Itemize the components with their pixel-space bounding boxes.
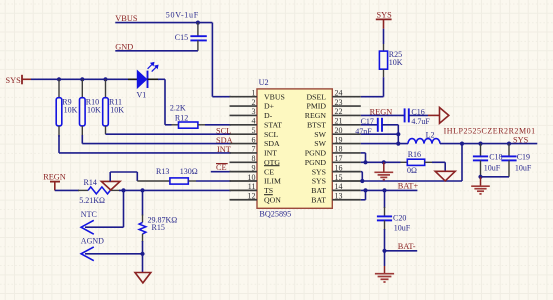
resistor R15 bbox=[139, 190, 177, 253]
svg-text:19: 19 bbox=[335, 135, 343, 144]
svg-text:21: 21 bbox=[335, 117, 343, 126]
wire R13 to pin 10 (ILIM) bbox=[196, 180, 231, 182]
power ground arrow (R16) bbox=[435, 171, 455, 181]
wire CE to pin 9 bbox=[211, 171, 231, 173]
wire ground-arrow to R13 bbox=[110, 172, 137, 181]
pin 18 (PGND) bbox=[305, 145, 361, 158]
wire C20 to ground bbox=[384, 251, 386, 266]
svg-text:CE: CE bbox=[264, 167, 274, 176]
wire NTC to TS bbox=[85, 190, 124, 227]
svg-text:DSEL: DSEL bbox=[307, 92, 327, 101]
node SYS-R11 bbox=[103, 77, 107, 81]
net label SYS (right) bbox=[513, 135, 529, 144]
wire pin 21 to C17 bbox=[361, 124, 378, 126]
svg-text:2: 2 bbox=[252, 98, 256, 107]
svg-text:STAT: STAT bbox=[264, 120, 282, 129]
svg-text:1: 1 bbox=[252, 89, 256, 98]
svg-text:PGND: PGND bbox=[305, 158, 327, 167]
offsheet connector AGND bbox=[81, 236, 104, 260]
svg-text:R15: R15 bbox=[152, 223, 165, 232]
svg-text:5.21KΩ: 5.21KΩ bbox=[79, 196, 105, 205]
ground (PGND) bbox=[374, 162, 393, 179]
pin 10 (ILIM) bbox=[230, 173, 281, 186]
capacitor C18 bbox=[473, 144, 503, 177]
node SYS-R9 bbox=[57, 77, 61, 81]
wire R10 to SDA net bbox=[82, 135, 231, 144]
power ground arrow (bottom left) bbox=[135, 273, 151, 283]
svg-text:10K: 10K bbox=[389, 58, 403, 67]
pin 19 (SW) bbox=[314, 135, 361, 148]
wire BAT- stub bbox=[385, 250, 418, 252]
svg-text:R13: R13 bbox=[156, 167, 169, 176]
svg-text:11: 11 bbox=[248, 182, 256, 191]
svg-text:10uF: 10uF bbox=[515, 163, 532, 172]
svg-text:5: 5 bbox=[252, 126, 256, 135]
pin 16 (SYS) bbox=[312, 163, 361, 176]
pin 9 (CE) bbox=[230, 163, 275, 176]
svg-text:0Ω: 0Ω bbox=[407, 166, 417, 175]
svg-text:10K: 10K bbox=[87, 106, 101, 115]
svg-text:4: 4 bbox=[252, 117, 256, 126]
svg-text:CE: CE bbox=[216, 163, 227, 172]
wire SYS rail (right) bbox=[440, 143, 537, 145]
svg-text:AGND: AGND bbox=[81, 236, 104, 245]
svg-text:BQ25895: BQ25895 bbox=[259, 209, 291, 218]
svg-text:V1: V1 bbox=[137, 90, 147, 99]
wire R12 to pin 4 (STAT) bbox=[205, 124, 231, 126]
power ground arrow (TS filter) bbox=[101, 181, 120, 190]
pin 4 (STAT) bbox=[230, 117, 283, 130]
pin 6 (SDA) bbox=[230, 135, 280, 148]
svg-text:10: 10 bbox=[248, 173, 256, 182]
wire TS rail bbox=[110, 189, 231, 191]
resistor R11 bbox=[103, 79, 125, 134]
svg-text:10K: 10K bbox=[110, 106, 124, 115]
resistor R10 bbox=[80, 79, 102, 137]
svg-text:14: 14 bbox=[335, 182, 343, 191]
node PGND ground junction bbox=[382, 160, 386, 164]
pin 7 (INT) bbox=[230, 145, 278, 158]
port REGN (left) bbox=[43, 173, 66, 191]
part number IHLP2525CZER2R2M01 bbox=[444, 127, 536, 136]
node BTST-SW tie lower bbox=[396, 142, 400, 146]
svg-text:NTC: NTC bbox=[81, 210, 97, 219]
svg-text:22: 22 bbox=[335, 107, 343, 116]
svg-text:QON: QON bbox=[264, 195, 281, 204]
net label BAT+ bbox=[398, 182, 419, 191]
LED V1 bbox=[128, 62, 158, 99]
svg-text:PGND: PGND bbox=[305, 149, 327, 158]
pin 15 (SYS) bbox=[312, 173, 361, 186]
svg-text:TS: TS bbox=[264, 186, 273, 195]
pin 23 (PMID) bbox=[307, 98, 361, 111]
pin 20 (SW) bbox=[314, 126, 361, 139]
svg-text:SYS: SYS bbox=[513, 135, 529, 144]
wire BAT+ rail bbox=[361, 189, 418, 191]
svg-text:SCL: SCL bbox=[264, 130, 279, 139]
port SYS (left) bbox=[6, 75, 32, 85]
svg-text:23: 23 bbox=[335, 98, 343, 107]
svg-text:4.7uF: 4.7uF bbox=[411, 117, 430, 126]
wire C16 to power arrow bbox=[409, 114, 428, 116]
svg-text:R12: R12 bbox=[175, 114, 188, 123]
node BTST-SW tie upper bbox=[396, 132, 400, 136]
svg-text:3: 3 bbox=[252, 107, 256, 116]
svg-text:20: 20 bbox=[335, 126, 343, 135]
pin 1 (VBUS) bbox=[230, 89, 285, 102]
svg-text:BAT+: BAT+ bbox=[398, 182, 419, 191]
wire GND to C15 bbox=[115, 50, 198, 52]
wire pin 19 (SW) to L2 bbox=[361, 143, 408, 145]
node SYS pins tie bbox=[360, 179, 364, 183]
wire C18-C19 ground tie bbox=[481, 176, 510, 178]
capacitor C17 bbox=[355, 117, 382, 136]
svg-text:PMID: PMID bbox=[307, 102, 327, 111]
net label SCL bbox=[216, 127, 231, 136]
svg-text:SW: SW bbox=[314, 139, 326, 148]
node AGND-R15 junction bbox=[140, 252, 144, 256]
svg-text:INT: INT bbox=[217, 145, 231, 154]
node SYS-C19 junction bbox=[507, 142, 511, 146]
node SYS-down junction bbox=[460, 142, 464, 146]
resistor R16 bbox=[401, 150, 433, 175]
svg-text:INT: INT bbox=[264, 149, 277, 158]
net label SDA bbox=[216, 136, 233, 145]
pin 11 (TS) bbox=[230, 182, 274, 195]
svg-text:BAT-: BAT- bbox=[398, 242, 416, 251]
svg-text:U2: U2 bbox=[259, 78, 269, 87]
capacitor C15 bbox=[175, 23, 207, 51]
wire pin 20 to SW tie bbox=[361, 133, 399, 135]
svg-text:ILIM: ILIM bbox=[264, 177, 281, 186]
pin 12 (QON) bbox=[230, 192, 282, 205]
node BAT- junction bbox=[382, 249, 386, 253]
svg-text:SYS: SYS bbox=[312, 167, 326, 176]
svg-text:SCL: SCL bbox=[216, 127, 231, 136]
wire SYS to R25 bbox=[383, 29, 385, 44]
wire pin 22 to C16 bbox=[361, 114, 405, 116]
pin name underlines (OTG, TS) bbox=[264, 166, 280, 195]
wire AGND to R15 bbox=[85, 253, 143, 255]
pin 13 (BAT) bbox=[311, 192, 361, 205]
svg-text:GND: GND bbox=[115, 42, 133, 51]
IC U2 BQ25895 body bbox=[257, 78, 332, 218]
svg-text:50V-1uF: 50V-1uF bbox=[166, 11, 199, 20]
svg-text:R14: R14 bbox=[84, 178, 97, 187]
node PGND tie bbox=[363, 160, 367, 164]
resistor R9 bbox=[56, 79, 77, 137]
svg-text:BTST: BTST bbox=[307, 120, 326, 129]
svg-text:SW: SW bbox=[314, 130, 326, 139]
inductor L2 bbox=[408, 130, 440, 143]
wire R15 to ground bbox=[142, 254, 144, 273]
wire REGN to R14 bbox=[55, 189, 88, 191]
svg-text:VBUS: VBUS bbox=[264, 92, 285, 101]
wire pin 16 to pin 15 tie bbox=[361, 172, 363, 181]
pin 8 (OTG) bbox=[230, 154, 281, 167]
svg-text:SYS: SYS bbox=[312, 177, 326, 186]
svg-text:REGN: REGN bbox=[43, 173, 66, 182]
svg-text:15: 15 bbox=[335, 173, 343, 182]
port VBUS bbox=[115, 14, 138, 23]
resistor R25 bbox=[379, 44, 402, 77]
svg-text:BAT: BAT bbox=[311, 195, 326, 204]
svg-text:10uF: 10uF bbox=[394, 224, 411, 233]
node SYS-C18 junction bbox=[478, 142, 482, 146]
svg-text:12: 12 bbox=[248, 192, 256, 201]
node BAT pins tie bbox=[363, 188, 367, 192]
wire R9 to INT net bbox=[59, 135, 231, 153]
resistor R13 bbox=[137, 167, 198, 184]
wire pin 17 (PGND) to R16 bbox=[361, 161, 401, 163]
capacitor C19 bbox=[501, 144, 532, 177]
power port arrow (REGN cap) bbox=[428, 108, 449, 124]
svg-text:10uF: 10uF bbox=[484, 163, 501, 172]
svg-text:C18: C18 bbox=[489, 152, 502, 161]
svg-text:SYS: SYS bbox=[377, 11, 393, 20]
value label 50V-1uF bbox=[166, 11, 199, 20]
svg-text:8: 8 bbox=[252, 154, 256, 163]
wire VBUS to C15 and pin 1 bbox=[115, 23, 231, 97]
svg-text:16: 16 bbox=[335, 163, 343, 172]
svg-text:SYS: SYS bbox=[6, 76, 22, 85]
resistor R12 bbox=[170, 104, 205, 129]
node TS-R15 junction bbox=[140, 188, 144, 192]
wire SYS rail to IC SYS pins bbox=[362, 144, 462, 181]
capacitor C20 bbox=[377, 190, 411, 250]
offsheet connector NTC bbox=[81, 210, 97, 234]
wire V1 cathode to R12 bbox=[148, 79, 172, 125]
wire R16 to ground arrow bbox=[432, 162, 445, 171]
svg-text:9: 9 bbox=[252, 163, 256, 172]
svg-text:10K: 10K bbox=[64, 106, 78, 115]
pin 21 (BTST) bbox=[307, 117, 361, 130]
svg-text:D+: D+ bbox=[264, 102, 275, 111]
svg-text:130Ω: 130Ω bbox=[180, 167, 198, 176]
svg-text:24: 24 bbox=[335, 89, 343, 98]
wire R25 to pin 24 (DSEL) bbox=[361, 77, 384, 97]
svg-text:6: 6 bbox=[252, 135, 256, 144]
node TS-NTC junction bbox=[121, 188, 125, 192]
pin 2 (D+) bbox=[230, 98, 275, 111]
wire SYS rail bbox=[31, 78, 137, 80]
net label BAT- bbox=[398, 242, 416, 251]
svg-text:C15: C15 bbox=[175, 33, 188, 42]
node VBUS-C15 junction bbox=[196, 21, 200, 25]
svg-text:7: 7 bbox=[252, 145, 256, 154]
pin 17 (PGND) bbox=[305, 154, 361, 167]
ground (battery) bbox=[375, 266, 394, 282]
svg-text:C19: C19 bbox=[517, 152, 530, 161]
resistor R14 bbox=[79, 178, 110, 205]
capacitor C16 bbox=[405, 108, 431, 126]
pin 3 (D-) bbox=[230, 107, 273, 120]
port SYS (top right) bbox=[376, 11, 392, 29]
node SYS-R10 bbox=[80, 77, 84, 81]
ground (SYS caps) bbox=[471, 177, 490, 194]
pin 14 (BAT) bbox=[311, 182, 361, 195]
svg-text:18: 18 bbox=[335, 145, 343, 154]
node C18 ground junction bbox=[478, 175, 482, 179]
svg-text:IHLP2525CZER2R2M01: IHLP2525CZER2R2M01 bbox=[444, 127, 536, 136]
wire C17 to SW bbox=[382, 125, 398, 144]
pin 24 (DSEL) bbox=[307, 89, 361, 102]
svg-text:R16: R16 bbox=[408, 150, 421, 159]
port GND bbox=[115, 42, 133, 51]
svg-text:BAT: BAT bbox=[311, 186, 326, 195]
svg-text:13: 13 bbox=[335, 192, 343, 201]
pin 22 (REGN) bbox=[305, 107, 361, 120]
svg-text:L2: L2 bbox=[426, 130, 435, 139]
svg-text:C20: C20 bbox=[393, 214, 406, 223]
wire pin 18 to PGND tie bbox=[361, 153, 366, 162]
svg-text:17: 17 bbox=[335, 154, 343, 163]
node BAT-C20 junction bbox=[382, 188, 386, 192]
svg-text:SDA: SDA bbox=[264, 139, 280, 148]
svg-text:REGN: REGN bbox=[305, 111, 327, 120]
svg-text:2.2K: 2.2K bbox=[170, 104, 186, 113]
svg-text:C17: C17 bbox=[361, 117, 374, 126]
svg-text:D-: D- bbox=[264, 111, 273, 120]
net label CE bbox=[216, 163, 228, 172]
net label REGN bbox=[370, 108, 393, 117]
net label INT bbox=[217, 145, 231, 154]
wire pin 13 to pin 14 tie bbox=[361, 190, 366, 199]
wire R11 to SCL net bbox=[106, 133, 232, 135]
pin 5 (SCL) bbox=[230, 126, 279, 139]
